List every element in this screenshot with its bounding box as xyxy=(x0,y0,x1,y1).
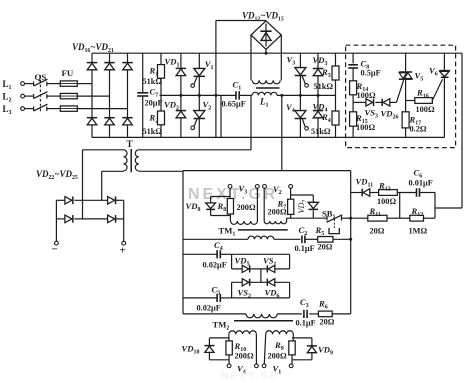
svg-text:0.5μF: 0.5μF xyxy=(361,69,381,78)
svg-text:−: − xyxy=(52,244,58,256)
diode VD8 xyxy=(210,197,212,203)
wire quad row2 xyxy=(232,281,290,283)
node output terminal V1b xyxy=(289,364,293,368)
diode VD25 xyxy=(108,215,116,223)
switch QS phase 1 xyxy=(25,83,34,85)
wire middle node rail xyxy=(160,94,237,96)
wire right edge down xyxy=(461,53,463,208)
thyristor V3 xyxy=(299,53,301,67)
svg-text:200Ω: 200Ω xyxy=(268,352,287,361)
diode VD3 xyxy=(317,53,319,68)
transformer TM1 core xyxy=(238,229,288,231)
diode VD6 xyxy=(267,279,274,286)
resistor R16 xyxy=(406,100,415,102)
diode VD1 xyxy=(180,53,182,68)
wire VS3/VD26 row xyxy=(353,101,366,103)
svg-text:51kΩ: 51kΩ xyxy=(143,77,163,86)
wire DC plus column xyxy=(123,200,125,241)
diode VS2 xyxy=(242,279,249,286)
transformer TM2 secondary B xyxy=(266,331,294,334)
wire quad top edge xyxy=(232,253,290,255)
fuse FU phase 1 xyxy=(47,83,61,85)
svg-text:T: T xyxy=(127,139,133,149)
svg-text:0.1μF: 0.1μF xyxy=(295,244,315,253)
wire TM2 primary row xyxy=(183,313,246,315)
wire secondary A right column xyxy=(255,334,257,364)
svg-text:100Ω: 100Ω xyxy=(377,197,396,206)
thyristor V1 xyxy=(198,53,200,68)
capacitor C7 xyxy=(142,53,144,92)
wire TM1 secondary row xyxy=(183,238,248,240)
resistor R11 xyxy=(368,215,387,221)
wire quad row1 xyxy=(232,268,290,270)
wire diamond bottom stub xyxy=(265,49,267,53)
svg-text:+: + xyxy=(120,245,126,257)
wire quad mid link xyxy=(260,269,262,282)
resistor R8 xyxy=(227,199,233,215)
thyristor V6 xyxy=(443,53,445,70)
capacitor C2 xyxy=(302,236,305,244)
node output terminal V4a xyxy=(227,364,231,368)
svg-text:0.2Ω: 0.2Ω xyxy=(410,124,427,133)
node gate terminal b xyxy=(255,185,259,189)
diode VD22 xyxy=(56,199,65,201)
svg-text:0.1μF: 0.1μF xyxy=(296,318,316,327)
resistor R9 xyxy=(289,341,295,355)
transformer T left winding xyxy=(83,149,124,151)
diode VD2 xyxy=(180,95,182,110)
svg-text:0.02μF: 0.02μF xyxy=(197,304,221,313)
capacitor C3 xyxy=(304,310,307,318)
wire DC minus column xyxy=(55,200,57,241)
switch QS phase 3 xyxy=(25,108,34,110)
fuse FU phase 2 xyxy=(47,95,61,97)
fuse FU phase 3 xyxy=(47,108,61,110)
transformer TM2 core xyxy=(234,320,293,322)
svg-text:NEXT.GR: NEXT.GR xyxy=(221,371,280,382)
transformer TM2 primary winding xyxy=(246,314,277,318)
wire secondary B right column xyxy=(292,334,294,341)
diode VD5 xyxy=(242,265,249,272)
svg-text:QS: QS xyxy=(35,72,47,82)
capacitor C4 xyxy=(183,253,217,255)
wire bridge AC input left xyxy=(82,150,84,219)
wire bottom DC rail xyxy=(92,136,444,138)
svg-text:100Ω: 100Ω xyxy=(356,123,375,132)
resistor R2 xyxy=(160,95,162,111)
switch QS phase 2 xyxy=(25,95,34,97)
wire vertical link at x=221 xyxy=(220,95,222,137)
wire trigger box outline xyxy=(183,170,351,172)
diode VD19 (bridge bottom col1) xyxy=(87,118,97,125)
resistor R17 xyxy=(402,112,409,128)
inductor L1 core xyxy=(256,87,280,89)
transformer T core xyxy=(130,149,132,172)
svg-text:1MΩ: 1MΩ xyxy=(409,227,428,236)
diode inside diamond xyxy=(265,24,267,47)
resistor R3 xyxy=(335,53,337,66)
svg-text:0.02μF: 0.02μF xyxy=(203,261,227,270)
resistor R15 xyxy=(352,102,354,111)
diode VD9 xyxy=(292,337,312,339)
thyristor V4 xyxy=(299,95,301,110)
resistor R1 xyxy=(160,53,162,64)
wire R11 row xyxy=(351,217,368,219)
wire SB1 to box edge xyxy=(342,217,351,219)
resistor R5 xyxy=(318,237,333,243)
resistor R10 xyxy=(226,341,232,355)
node minus terminal xyxy=(55,241,59,245)
transformer TM1 primary 1 xyxy=(231,221,258,224)
node L3 input terminal xyxy=(21,107,25,111)
diode VD18 (bridge top col3) xyxy=(127,53,129,62)
triac V5 xyxy=(405,53,407,71)
diode VD10 xyxy=(209,337,229,339)
wire V5 gate link xyxy=(396,80,403,102)
svg-text:20Ω: 20Ω xyxy=(370,227,385,236)
node plus terminal xyxy=(122,241,126,245)
svg-text:200Ω: 200Ω xyxy=(235,352,254,361)
svg-text:20Ω: 20Ω xyxy=(320,317,335,326)
diode VD23 xyxy=(108,197,116,205)
diode VD16 (bridge top col1) xyxy=(91,53,93,62)
wire C6-R12 parallel left link xyxy=(399,193,401,219)
thyristor V2 xyxy=(198,95,200,110)
diode VD21 (bridge bottom col3) xyxy=(122,118,132,125)
node gate terminal d xyxy=(289,185,293,189)
diode VS3 xyxy=(366,99,374,106)
inductor L1 top winding xyxy=(250,35,252,80)
capacitor C1 xyxy=(235,94,236,96)
switch QS linkage xyxy=(39,75,41,112)
transformer TM2 secondary A xyxy=(229,331,257,334)
capacitor C8 xyxy=(352,53,354,63)
capacitor C5 xyxy=(183,297,217,299)
resistor R7 xyxy=(288,199,294,214)
svg-text:200Ω: 200Ω xyxy=(237,203,256,212)
svg-text:0.65μF: 0.65μF xyxy=(222,100,246,109)
wire drop x=281.8 to trigger box xyxy=(281,95,283,170)
svg-text:20μF: 20μF xyxy=(145,99,163,108)
node L1 input terminal xyxy=(21,82,25,86)
resistor R6 xyxy=(318,311,332,317)
node gate terminal a xyxy=(228,185,232,189)
diode VD24 xyxy=(56,218,65,220)
resistor R14 xyxy=(350,81,357,95)
wire drop x=251 to T xyxy=(250,95,252,149)
svg-text:20Ω: 20Ω xyxy=(318,243,333,252)
wire vertical link at x=216 xyxy=(215,21,217,138)
rectifier bridge VD12~VD15 diamond xyxy=(251,21,281,50)
wire top link to diamond xyxy=(216,20,266,22)
diode VD20 (bridge bottom col2) xyxy=(104,118,114,125)
wire V6 gate link xyxy=(432,79,442,100)
diode VD26 xyxy=(375,101,381,103)
capacitor C6 xyxy=(417,188,420,197)
svg-text:100Ω: 100Ω xyxy=(416,105,435,114)
diode VS1 xyxy=(267,265,274,272)
node output terminal V4b xyxy=(255,364,259,368)
diode VD7 xyxy=(312,195,314,202)
resistor R12 xyxy=(400,217,410,219)
transformer TM1 primary 2 xyxy=(264,221,286,224)
diode VD4 xyxy=(317,95,319,110)
svg-text:51kΩ: 51kΩ xyxy=(143,127,163,136)
node output terminal V1a xyxy=(262,364,266,368)
wire middle rail right section xyxy=(277,94,336,96)
svg-text:51kΩ: 51kΩ xyxy=(311,127,331,136)
wire top DC rail xyxy=(92,52,462,54)
svg-text:0.01μF: 0.01μF xyxy=(409,179,433,188)
wire output link to right edge xyxy=(435,207,462,209)
wire bridge AC input right xyxy=(101,171,103,200)
wire gate feedback row xyxy=(351,192,362,194)
wire R7 column xyxy=(290,188,292,199)
node gate terminal c xyxy=(263,185,267,189)
svg-text:51kΩ: 51kΩ xyxy=(314,82,334,91)
wire R8 column xyxy=(229,188,231,198)
resistor R4 xyxy=(335,95,337,111)
dashed enclosure box xyxy=(346,45,456,147)
wire quad bottom edge xyxy=(231,282,233,298)
wire secondary B left column xyxy=(264,334,265,364)
diode VD11 xyxy=(362,189,370,197)
inductor L1 bottom winding xyxy=(252,92,277,95)
transformer TM1 secondary xyxy=(248,236,274,239)
resistor R13 xyxy=(379,190,398,196)
wire C6-R12 parallel right link xyxy=(434,193,436,219)
node L2 input terminal xyxy=(21,94,25,98)
diode VD17 (bridge top col2) xyxy=(109,53,111,62)
svg-text:200Ω: 200Ω xyxy=(268,208,287,217)
svg-text:FU: FU xyxy=(62,68,74,78)
transformer T right winding xyxy=(135,150,139,171)
wire secondary A left column xyxy=(228,334,230,341)
